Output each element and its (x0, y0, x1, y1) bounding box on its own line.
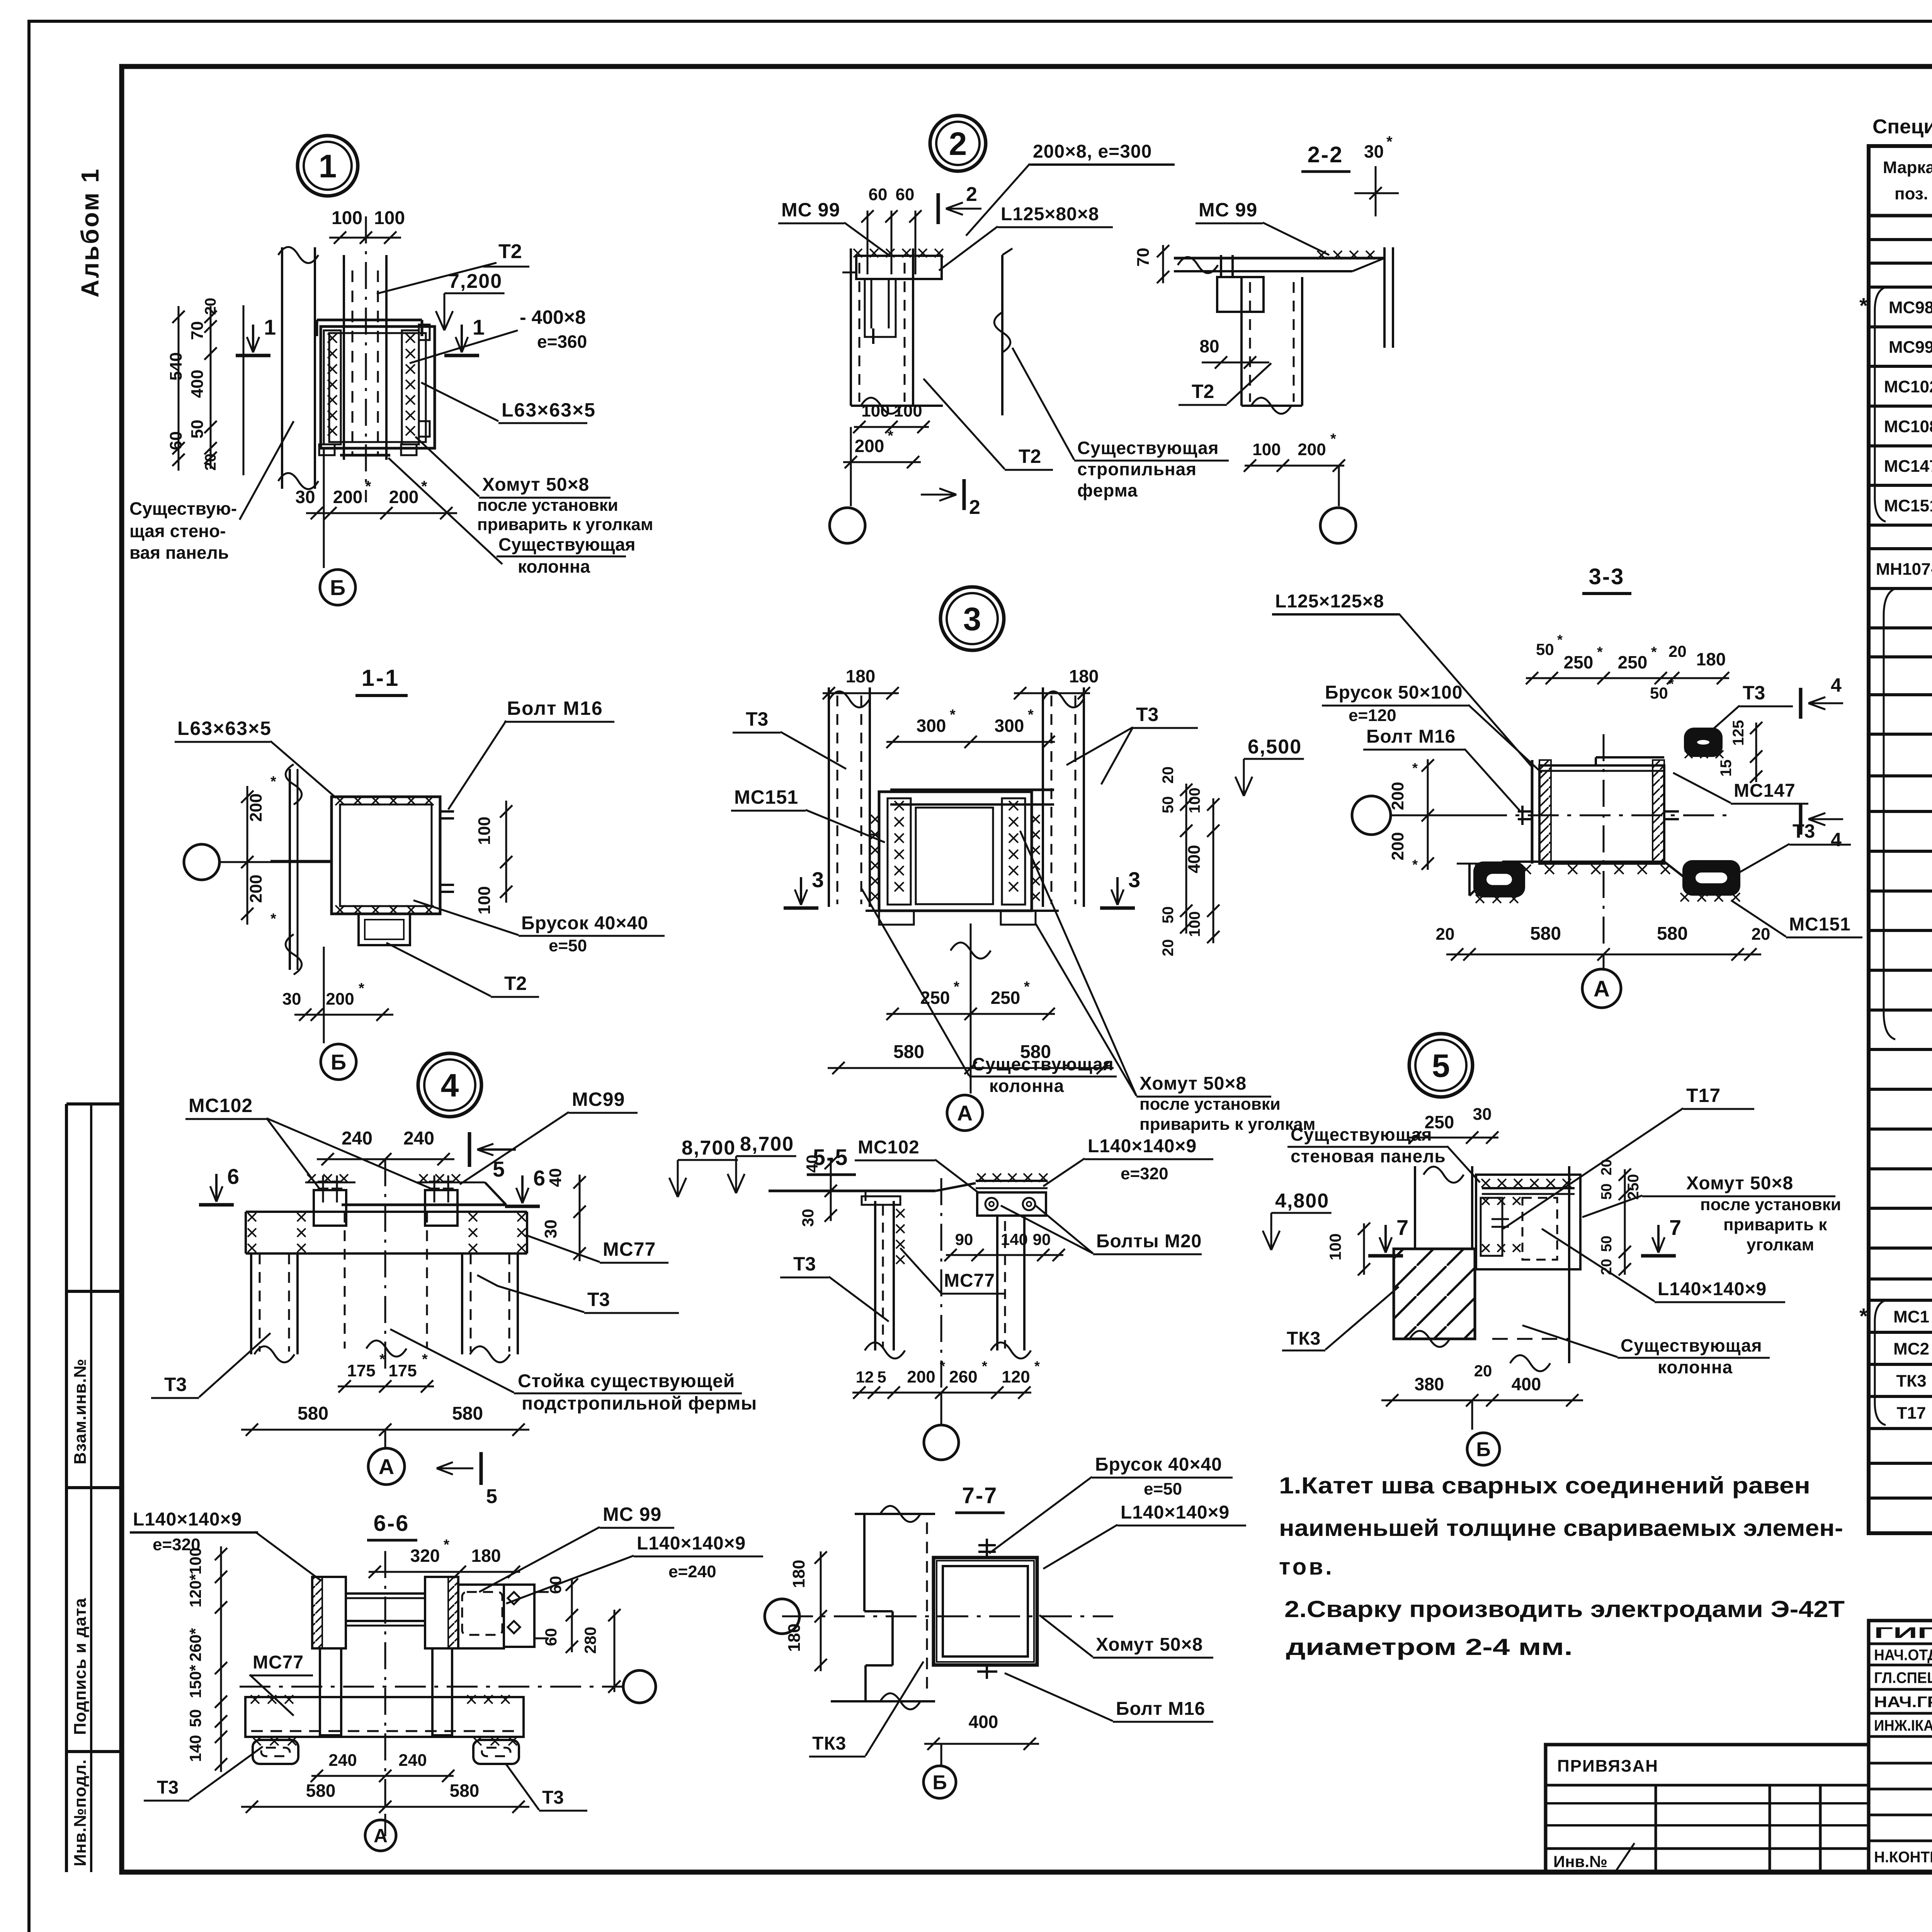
svg-text:МС 99: МС 99 (781, 199, 840, 221)
svg-text:*: * (1330, 431, 1336, 447)
svg-text:*: * (954, 979, 959, 995)
svg-text:Т3: Т3 (157, 1777, 179, 1798)
svg-text:30: 30 (799, 1209, 817, 1227)
svg-text:е=120: е=120 (1349, 706, 1396, 725)
svg-text:175: 175 (388, 1361, 417, 1380)
svg-text:60: 60 (167, 431, 185, 450)
svg-text:180: 180 (846, 666, 876, 686)
section 2-2 drawing (1174, 257, 1384, 260)
svg-text:*: * (940, 1358, 945, 1374)
svg-text:6: 6 (533, 1166, 545, 1190)
section 3-3 drawing (1531, 760, 1534, 864)
svg-text:приварить к уголкам: приварить к уголкам (477, 515, 653, 534)
svg-text:ферма: ферма (1077, 480, 1138, 500)
svg-text:МС102: МС102 (858, 1137, 920, 1158)
svg-text:ГЛ.СПЕЦ.: ГЛ.СПЕЦ. (1874, 1670, 1932, 1687)
svg-text:МН107-б: МН107-б (1876, 560, 1932, 579)
detail 5 drawing (1414, 1166, 1416, 1249)
svg-text:ПРИВЯЗАН: ПРИВЯЗАН (1557, 1757, 1658, 1776)
svg-text:МС102: МС102 (1884, 378, 1932, 396)
spec table grid (1869, 146, 1932, 1533)
svg-text:120: 120 (1002, 1367, 1030, 1386)
svg-text:40: 40 (546, 1168, 565, 1187)
svg-text:ТК3: ТК3 (1896, 1372, 1926, 1391)
svg-text:Т3: Т3 (542, 1787, 564, 1808)
detail 5 dims bottom (1394, 1338, 1475, 1340)
section 7-7 axis bottom (923, 1766, 956, 1798)
svg-text:приварить к: приварить к (1723, 1215, 1827, 1234)
detail 4 section mark bottom (480, 1452, 483, 1485)
svg-text:150*: 150* (186, 1665, 204, 1698)
svg-text:240: 240 (403, 1128, 434, 1149)
svg-text:175: 175 (347, 1361, 375, 1380)
svg-text:3: 3 (963, 601, 981, 637)
detail 2 axis (830, 508, 865, 543)
svg-text:А: А (379, 1454, 394, 1479)
svg-text:40: 40 (803, 1155, 821, 1173)
svg-text:2: 2 (949, 126, 967, 162)
svg-text:колонна: колонна (1658, 1357, 1733, 1377)
svg-text:МС147: МС147 (1884, 457, 1932, 476)
svg-text:50: 50 (1160, 796, 1177, 814)
svg-text:3: 3 (1128, 867, 1140, 892)
svg-text:МС77: МС77 (603, 1238, 656, 1260)
svg-text:L140×140×9: L140×140×9 (133, 1509, 242, 1530)
svg-text:Марка,: Марка, (1883, 158, 1932, 177)
svg-text:240: 240 (328, 1751, 357, 1770)
svg-text:Т17: Т17 (1897, 1404, 1926, 1423)
svg-text:2: 2 (966, 183, 977, 206)
svg-text:е=240: е=240 (668, 1562, 716, 1581)
svg-text:7: 7 (1669, 1215, 1681, 1240)
svg-text:20: 20 (1474, 1362, 1492, 1380)
detail 1 drawing (343, 255, 345, 460)
svg-text:580: 580 (306, 1781, 336, 1801)
svg-text:200: 200 (247, 793, 265, 821)
svg-text:Т3: Т3 (1743, 682, 1765, 704)
svg-text:*: * (1412, 760, 1418, 776)
svg-text:380: 380 (1415, 1374, 1444, 1394)
svg-text:Болт М16: Болт М16 (507, 697, 603, 719)
svg-text:4: 4 (441, 1067, 459, 1104)
svg-text:140: 140 (186, 1735, 204, 1762)
detail 1 axis (323, 448, 325, 568)
svg-text:МС1: МС1 (1893, 1308, 1929, 1327)
svg-text:поз.: поз. (1895, 184, 1928, 203)
svg-text:100: 100 (475, 886, 494, 914)
privyazan block (1546, 1745, 1869, 1872)
svg-text:400: 400 (1512, 1374, 1541, 1394)
svg-text:50: 50 (1599, 1236, 1615, 1252)
svg-text:15: 15 (1718, 760, 1735, 777)
svg-text:6-6: 6-6 (374, 1511, 410, 1536)
svg-text:125: 125 (1730, 720, 1747, 746)
svg-text:200×8, е=300: 200×8, е=300 (1033, 141, 1152, 162)
svg-text:ИНЖ.IКАТ: ИНЖ.IКАТ (1874, 1717, 1932, 1734)
svg-text:260*: 260* (186, 1628, 204, 1662)
svg-text:120*: 120* (186, 1574, 204, 1607)
svg-text:250: 250 (991, 988, 1020, 1008)
svg-text:колонна: колонна (989, 1076, 1064, 1096)
svg-text:8,700: 8,700 (740, 1133, 794, 1155)
svg-text:тов.: тов. (1279, 1554, 1334, 1580)
svg-text:е=50: е=50 (549, 936, 587, 955)
sidebar column (65, 1104, 68, 1872)
section 1-1 axis bottom (323, 947, 325, 1043)
svg-text:60: 60 (896, 185, 915, 204)
svg-text:МС108: МС108 (1884, 417, 1932, 436)
section 6-6 axis (384, 1816, 386, 1836)
detail 3 axis (947, 1095, 983, 1131)
svg-text:НАЧ.ОТД.: НАЧ.ОТД. (1874, 1647, 1932, 1664)
svg-text:*: * (982, 1358, 987, 1374)
svg-text:30: 30 (295, 487, 315, 507)
svg-text:240: 240 (398, 1751, 427, 1770)
section 7-7 axis left (765, 1599, 799, 1634)
svg-text:4: 4 (1831, 829, 1842, 850)
svg-text:Б: Б (932, 1772, 947, 1794)
spec table braces (1875, 287, 1886, 522)
svg-text:ТК3: ТК3 (812, 1733, 846, 1754)
svg-text:L125×125×8: L125×125×8 (1275, 591, 1384, 612)
svg-text:60: 60 (542, 1628, 560, 1646)
svg-text:12: 12 (856, 1368, 874, 1386)
svg-text:240: 240 (342, 1128, 372, 1149)
svg-text:*: * (1651, 644, 1657, 660)
svg-text:*: * (1034, 1358, 1040, 1374)
svg-text:Хомут 50×8: Хомут 50×8 (1096, 1634, 1203, 1655)
svg-text:400: 400 (1185, 845, 1204, 873)
svg-text:1: 1 (319, 148, 337, 184)
svg-text:*: * (444, 1537, 449, 1553)
svg-text:Брусок 40×40: Брусок 40×40 (521, 913, 648, 934)
svg-text:1: 1 (473, 315, 485, 339)
svg-text:4: 4 (1831, 674, 1842, 696)
svg-text:6: 6 (227, 1164, 239, 1189)
svg-text:30: 30 (282, 990, 301, 1009)
svg-text:200: 200 (1298, 440, 1326, 459)
svg-text:250: 250 (1618, 652, 1648, 672)
svg-text:Инв.№подл.: Инв.№подл. (71, 1759, 90, 1866)
svg-text:Болты М20: Болты М20 (1096, 1231, 1202, 1252)
section 6-6 axis right (623, 1670, 656, 1703)
svg-text:ТК3: ТК3 (1287, 1328, 1321, 1349)
svg-text:100: 100 (1186, 787, 1203, 813)
svg-text:180: 180 (1069, 666, 1099, 686)
svg-text:80: 80 (1199, 336, 1219, 356)
svg-text:Б: Б (331, 1050, 346, 1074)
section 3-3 axis bottom (1582, 969, 1621, 1008)
detail 1 section marks (236, 354, 270, 357)
detail 2 section mark top (937, 193, 940, 224)
svg-text:300: 300 (995, 716, 1024, 736)
svg-text:Т3: Т3 (164, 1374, 187, 1395)
svg-text:*: * (1412, 857, 1418, 872)
svg-text:Спецификация элементов: Спецификация элементов (1872, 116, 1932, 138)
svg-text:20: 20 (1668, 642, 1687, 660)
svg-text:Т3: Т3 (746, 708, 768, 730)
svg-text:Хомут 50×8: Хомут 50×8 (1686, 1173, 1793, 1194)
svg-text:наименьшей толщине свариваем: наименьшей толщине свариваемых элемен- (1279, 1515, 1843, 1541)
svg-text:МС 99: МС 99 (603, 1503, 662, 1525)
svg-text:580: 580 (1530, 923, 1561, 944)
svg-text:2-2: 2-2 (1308, 142, 1344, 167)
svg-text:МС151: МС151 (1789, 914, 1851, 935)
svg-text:6,500: 6,500 (1248, 736, 1302, 758)
svg-text:50: 50 (1160, 906, 1177, 924)
svg-text:3: 3 (812, 867, 824, 892)
svg-text:е=320: е=320 (1121, 1164, 1168, 1183)
svg-text:*: * (1028, 707, 1034, 723)
svg-text:Б: Б (330, 575, 345, 600)
svg-text:L140×140×9: L140×140×9 (1658, 1279, 1767, 1299)
svg-text:200: 200 (907, 1367, 935, 1386)
svg-text:*: * (270, 911, 276, 927)
svg-text:Болт М16: Болт М16 (1366, 726, 1456, 747)
svg-text:НАЧ.ГР.: НАЧ.ГР. (1874, 1694, 1932, 1711)
svg-text:Взам.инв.№: Взам.инв.№ (71, 1359, 90, 1464)
svg-text:60: 60 (869, 185, 888, 204)
svg-text:L125×80×8: L125×80×8 (1001, 204, 1099, 224)
svg-text:Существующая: Существующая (1077, 438, 1219, 458)
svg-text:*: * (1557, 632, 1563, 648)
svg-text:е=360: е=360 (537, 332, 587, 352)
svg-text:400: 400 (969, 1712, 998, 1732)
svg-text:Т2: Т2 (1019, 446, 1041, 467)
svg-text:260: 260 (949, 1367, 977, 1386)
svg-text:Б: Б (1476, 1439, 1490, 1461)
section 6-6 dims left (220, 1546, 222, 1772)
section 6-6 drawing (312, 1577, 346, 1648)
svg-text:280: 280 (581, 1627, 599, 1654)
detail 5 section marks (1368, 1254, 1403, 1258)
svg-text:1: 1 (264, 315, 276, 339)
svg-text:90: 90 (955, 1230, 973, 1248)
svg-text:180: 180 (789, 1560, 808, 1588)
detail 1 dims left (210, 306, 212, 469)
svg-text:*: * (365, 478, 371, 495)
svg-text:*: * (1024, 979, 1030, 995)
svg-text:Т17: Т17 (1686, 1085, 1721, 1106)
svg-text:5: 5 (877, 1368, 886, 1386)
svg-text:колонна: колонна (518, 556, 590, 577)
svg-text:МС77: МС77 (944, 1270, 995, 1291)
svg-text:90: 90 (1033, 1230, 1051, 1248)
svg-text:180: 180 (471, 1546, 501, 1566)
svg-text:Брусок 40×40: Брусок 40×40 (1095, 1454, 1222, 1475)
detail 2 section mark bottom (963, 479, 966, 510)
svg-text:7-7: 7-7 (962, 1483, 998, 1508)
svg-text:100: 100 (1252, 440, 1281, 459)
svg-text:L140×140×9: L140×140×9 (637, 1533, 746, 1554)
svg-text:2.Сварку производить электро: 2.Сварку производить электродами Э-42Т (1284, 1596, 1845, 1622)
svg-text:30: 30 (1473, 1105, 1492, 1124)
detail 2 drawing (850, 248, 852, 406)
svg-text:*: * (359, 980, 364, 997)
detail 4 section marks (199, 1203, 234, 1207)
svg-text:5: 5 (486, 1485, 497, 1508)
detail 3 section marks (784, 906, 818, 910)
detail 1 callout (298, 136, 358, 196)
svg-text:L140×140×9: L140×140×9 (1121, 1502, 1230, 1523)
svg-text:200: 200 (333, 487, 363, 507)
svg-text:180: 180 (1696, 649, 1726, 669)
svg-text:100: 100 (861, 401, 889, 420)
svg-text:20: 20 (202, 454, 219, 471)
detail 3 callout (940, 587, 1004, 650)
svg-text:*: * (1859, 1304, 1868, 1328)
svg-text:70: 70 (1134, 248, 1153, 267)
svg-text:е=50: е=50 (1144, 1480, 1182, 1498)
section 3-3 axis left (1352, 796, 1391, 835)
svg-text:1.Катет шва сварных соедине: 1.Катет шва сварных соединений равен (1279, 1473, 1810, 1498)
svg-text:200: 200 (1388, 832, 1407, 860)
svg-text:подстропильной фермы: подстропильной фермы (522, 1393, 757, 1414)
svg-text:50: 50 (186, 1709, 204, 1727)
svg-text:20: 20 (1160, 767, 1177, 784)
svg-text:100: 100 (186, 1548, 204, 1575)
svg-text:Существующая: Существующая (498, 534, 636, 554)
svg-text:- 400×8: - 400×8 (520, 306, 586, 328)
svg-text:7: 7 (1396, 1215, 1408, 1240)
svg-text:МС99: МС99 (1889, 338, 1932, 357)
svg-text:Существующая: Существующая (1621, 1335, 1762, 1355)
svg-text:А: А (957, 1101, 973, 1125)
svg-text:20: 20 (1599, 1159, 1615, 1175)
svg-text:уголкам: уголкам (1747, 1235, 1814, 1254)
svg-text:*: * (422, 1351, 428, 1367)
svg-text:*: * (1386, 133, 1393, 150)
svg-text:3-3: 3-3 (1589, 564, 1625, 589)
svg-text:20: 20 (1436, 925, 1455, 944)
svg-text:Т2: Т2 (504, 973, 527, 994)
svg-text:100: 100 (374, 208, 405, 228)
svg-text:580: 580 (450, 1781, 480, 1801)
svg-text:8,700: 8,700 (682, 1137, 736, 1159)
svg-text:1-1: 1-1 (362, 665, 400, 691)
svg-text:МС151: МС151 (1884, 497, 1932, 515)
svg-text:стеновая панель: стеновая панель (1291, 1146, 1446, 1166)
svg-text:диаметром 2-4 мм.: диаметром 2-4 мм. (1286, 1634, 1573, 1660)
section 3-3 channel top right (1684, 728, 1723, 757)
svg-text:Т2: Т2 (498, 240, 522, 263)
svg-text:Брусок 50×100: Брусок 50×100 (1325, 682, 1463, 703)
detail 2 callout (930, 116, 986, 171)
svg-text:Стойка существующей: Стойка существующей (518, 1371, 735, 1391)
svg-text:*: * (888, 428, 893, 444)
svg-text:4,800: 4,800 (1275, 1190, 1329, 1212)
svg-text:МС99: МС99 (572, 1088, 625, 1110)
detail 4 drawing (342, 1204, 505, 1206)
detail 4 callout (418, 1053, 481, 1117)
svg-text:320: 320 (410, 1546, 440, 1566)
svg-text:Хомут 50×8: Хомут 50×8 (482, 474, 589, 495)
svg-text:МС98: МС98 (1889, 298, 1932, 317)
svg-text:30: 30 (541, 1219, 560, 1238)
spec table row lines (1869, 238, 1932, 241)
detail 5 axis (1467, 1433, 1500, 1465)
section 1-1 drawing (332, 797, 440, 914)
svg-text:*: * (950, 707, 956, 723)
detail 3 drawing (828, 687, 830, 907)
section 5-5 axis (924, 1425, 959, 1460)
svg-text:50: 50 (188, 420, 207, 439)
svg-text:А: А (1594, 976, 1610, 1002)
svg-text:МС77: МС77 (253, 1652, 304, 1673)
svg-text:Подпись и дата: Подпись и дата (71, 1598, 90, 1735)
svg-text:50: 50 (1599, 1184, 1615, 1200)
svg-text:МС2: МС2 (1893, 1340, 1929, 1359)
svg-text:50: 50 (1650, 684, 1668, 702)
svg-text:100: 100 (475, 816, 494, 845)
section 3-3 section marks (1799, 688, 1803, 719)
svg-text:МС 99: МС 99 (1199, 199, 1257, 221)
svg-text:Болт М16: Болт М16 (1116, 1699, 1205, 1719)
svg-text:МС147: МС147 (1734, 781, 1796, 801)
svg-text:200: 200 (389, 487, 419, 507)
svg-text:250: 250 (1425, 1112, 1454, 1132)
svg-text:400: 400 (188, 370, 207, 398)
section 2-2 axis (1320, 508, 1356, 543)
svg-text:L63×63×5: L63×63×5 (177, 718, 272, 739)
detail 4 axis (384, 1430, 386, 1448)
svg-text:МС151: МС151 (734, 786, 798, 808)
signature table (1869, 1621, 1932, 1872)
svg-text:Т2: Т2 (1192, 381, 1214, 402)
svg-text:200: 200 (326, 990, 354, 1009)
svg-text:А: А (374, 1825, 388, 1847)
svg-text:250: 250 (1564, 652, 1594, 672)
svg-text:Инв.№: Инв.№ (1553, 1852, 1607, 1871)
svg-text:50: 50 (1536, 640, 1554, 658)
svg-text:L63×63×5: L63×63×5 (502, 399, 596, 421)
svg-text:L140×140×9: L140×140×9 (1088, 1136, 1197, 1156)
svg-text:Т3: Т3 (1136, 704, 1158, 725)
svg-text:*: * (379, 1351, 385, 1367)
svg-text:250: 250 (920, 988, 950, 1008)
svg-text:*: * (270, 774, 276, 790)
section 5-5 drawing (769, 1190, 935, 1192)
svg-text:Альбом 1: Альбом 1 (76, 167, 104, 298)
svg-text:*: * (1859, 293, 1868, 318)
svg-text:580: 580 (1657, 923, 1688, 944)
svg-text:580: 580 (893, 1042, 924, 1062)
svg-text:540: 540 (167, 352, 185, 381)
svg-text:5: 5 (1432, 1048, 1450, 1084)
svg-text:70: 70 (188, 321, 207, 340)
svg-text:20: 20 (1160, 939, 1177, 957)
svg-text:щая стено-: щая стено- (129, 521, 226, 541)
svg-text:Н.КОНТР.: Н.КОНТР. (1874, 1849, 1932, 1866)
svg-text:200: 200 (855, 436, 884, 456)
svg-text:580: 580 (1020, 1042, 1051, 1062)
svg-text:Т3: Т3 (793, 1253, 816, 1275)
svg-text:200: 200 (247, 874, 265, 903)
svg-text:Т3: Т3 (1793, 820, 1815, 842)
svg-text:300: 300 (917, 716, 946, 736)
svg-text:*: * (1597, 644, 1603, 660)
svg-text:100: 100 (332, 208, 362, 228)
svg-text:Существую-: Существую- (129, 498, 237, 519)
svg-text:580: 580 (298, 1403, 328, 1424)
svg-text:140: 140 (1001, 1230, 1028, 1248)
svg-text:100: 100 (894, 401, 922, 420)
svg-text:2: 2 (969, 496, 980, 519)
detail 5 callout (1409, 1034, 1473, 1097)
svg-text:20: 20 (202, 298, 219, 315)
svg-text:100: 100 (1326, 1233, 1344, 1260)
svg-text:МС102: МС102 (189, 1095, 253, 1116)
